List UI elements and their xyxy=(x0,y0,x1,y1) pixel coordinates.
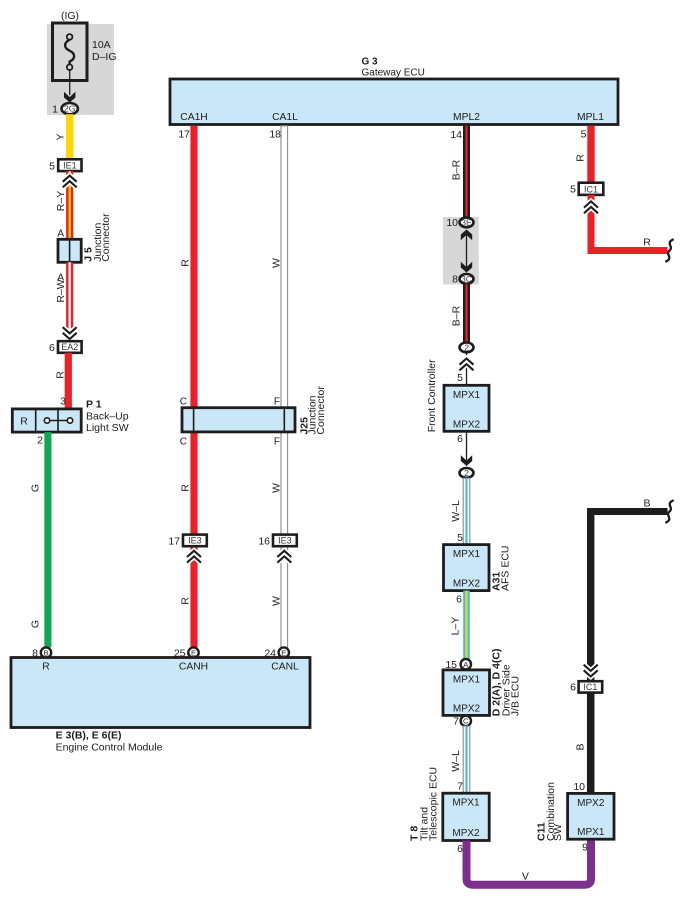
svg-text:G: G xyxy=(30,484,42,492)
wire R (red) from IC1 to right edge xyxy=(588,195,668,254)
svg-text:Connector: Connector xyxy=(100,213,112,262)
wire break curl on black wire xyxy=(665,500,673,523)
svg-text:MPX1: MPX1 xyxy=(452,798,480,809)
svg-text:EA2: EA2 xyxy=(61,342,78,352)
wire W (white) CA1L to J25 xyxy=(271,126,288,408)
svg-text:5: 5 xyxy=(570,183,576,195)
wire W-L (white/blue) to AFS ECU xyxy=(450,478,470,544)
wire R (red) IE3 to ECM CANH xyxy=(180,541,198,647)
svg-text:IE1: IE1 xyxy=(63,161,77,171)
wire W-L (white/blue) to tilt ECU xyxy=(450,726,470,793)
svg-text:2: 2 xyxy=(464,468,469,478)
svg-text:MPX2: MPX2 xyxy=(452,828,480,839)
svg-text:R–W: R–W xyxy=(55,279,67,302)
svg-text:SW: SW xyxy=(552,824,564,841)
svg-text:B–R: B–R xyxy=(451,159,463,180)
wire break curl on red wire xyxy=(665,239,673,262)
svg-text:2: 2 xyxy=(464,342,469,352)
wire B-R (black/red) 3C to connector 2 xyxy=(451,284,470,342)
svg-text:R: R xyxy=(180,259,192,267)
svg-text:Engine Control Module: Engine Control Module xyxy=(56,742,163,754)
junction connector J25, pins C/F xyxy=(180,386,327,448)
gateway ECU G3 box xyxy=(170,57,618,125)
pin numbers under gateway ECU xyxy=(178,129,586,142)
svg-text:Connector: Connector xyxy=(315,386,327,435)
svg-text:IE3: IE3 xyxy=(278,536,292,546)
arrow link 3E to 3C xyxy=(461,230,472,273)
tilt and telescopic ECU T8 box MPX1/MPX2 xyxy=(409,767,489,841)
svg-text:5: 5 xyxy=(457,372,463,384)
AFS ECU A31 box MPX1/MPX2 xyxy=(444,545,512,591)
combination SW C11 box MPX2/MPX1 xyxy=(536,782,614,841)
svg-text:V: V xyxy=(522,871,529,883)
svg-text:6: 6 xyxy=(457,843,463,855)
svg-text:W: W xyxy=(271,596,283,606)
svg-text:14: 14 xyxy=(450,129,462,141)
fuse 10A D-IG (IG) xyxy=(53,10,117,81)
svg-text:R: R xyxy=(42,662,49,673)
gray panel between 3E and 3C xyxy=(443,217,479,285)
svg-text:18: 18 xyxy=(269,129,281,141)
svg-text:6: 6 xyxy=(49,342,55,354)
svg-text:Front Controller: Front Controller xyxy=(426,359,438,432)
svg-text:MPX1: MPX1 xyxy=(453,390,481,401)
svg-text:17: 17 xyxy=(178,129,190,141)
svg-text:10: 10 xyxy=(446,217,458,229)
svg-text:J/B ECU: J/B ECU xyxy=(510,676,522,716)
ECM pin 24 circle E xyxy=(264,647,289,659)
connector oval 2 above front controller xyxy=(460,342,474,352)
wire from fuse to terminal 2G xyxy=(64,69,75,103)
svg-text:5: 5 xyxy=(457,532,463,544)
svg-text:D–IG: D–IG xyxy=(92,51,117,63)
connector IC1 pin 5 (top right) xyxy=(570,183,603,196)
svg-text:R: R xyxy=(180,484,192,492)
svg-text:B–R: B–R xyxy=(451,305,463,326)
lead from front controller pin 6 to oval 2 xyxy=(457,431,472,466)
svg-text:W–L: W–L xyxy=(450,750,462,772)
connector IE1 pin 5 xyxy=(49,159,81,172)
svg-text:10: 10 xyxy=(573,781,585,793)
svg-text:7: 7 xyxy=(457,781,463,793)
wire W (white) J25 to IE3 xyxy=(271,432,288,535)
svg-text:R–Y: R–Y xyxy=(55,191,67,211)
svg-text:E: E xyxy=(281,648,286,657)
svg-text:1: 1 xyxy=(52,103,58,115)
front controller box MPX1/MPX2 xyxy=(426,359,489,432)
svg-text:W–L: W–L xyxy=(450,500,462,522)
svg-text:MPX1: MPX1 xyxy=(453,674,481,685)
svg-text:MPX2: MPX2 xyxy=(577,798,605,809)
svg-text:Light SW: Light SW xyxy=(86,422,129,434)
svg-text:R: R xyxy=(643,236,651,248)
gray service panel behind fuse xyxy=(47,24,114,115)
svg-text:3C: 3C xyxy=(461,274,472,284)
svg-text:6: 6 xyxy=(456,594,462,606)
svg-text:Gateway ECU: Gateway ECU xyxy=(362,68,425,79)
engine control module E3(B) E6(E) box xyxy=(11,658,310,754)
svg-text:G: G xyxy=(30,620,42,628)
wire R (red) J25 to IE3 xyxy=(180,432,198,535)
pin 7 circle C on driver side J/B ECU xyxy=(453,716,471,728)
svg-text:B: B xyxy=(43,648,48,657)
svg-text:Y: Y xyxy=(55,133,67,140)
svg-text:Telescopic ECU: Telescopic ECU xyxy=(428,767,440,841)
wire B (black) from right edge to IC1 xyxy=(587,497,668,681)
wire V (violet) T8 pin 6 to C11 pin 9 xyxy=(457,839,591,885)
wire R (red) MPL1 to IC1 xyxy=(575,126,595,183)
svg-text:MPX2: MPX2 xyxy=(453,703,481,714)
svg-text:6: 6 xyxy=(570,682,576,694)
svg-text:C: C xyxy=(180,397,187,408)
connector IE3 pin 17 xyxy=(168,535,206,563)
wire L-Y (blue/yellow) AFS to driver side J/B xyxy=(450,591,470,660)
svg-text:3E: 3E xyxy=(461,217,472,227)
svg-text:B: B xyxy=(575,743,587,750)
svg-text:MPX2: MPX2 xyxy=(453,419,481,430)
chevron and lead into front controller pin 5 xyxy=(457,353,473,385)
wire R-Y (red/yellow) xyxy=(55,171,73,239)
svg-text:AFS ECU: AFS ECU xyxy=(500,545,512,591)
svg-text:L–Y: L–Y xyxy=(450,617,462,636)
wire R-W (red/white) xyxy=(55,262,73,341)
svg-text:5: 5 xyxy=(49,160,55,172)
svg-text:CA1L: CA1L xyxy=(272,112,298,123)
svg-text:F: F xyxy=(274,397,280,408)
chevron above IC1 (bottom) xyxy=(584,665,598,677)
svg-text:R: R xyxy=(575,154,587,162)
svg-text:E 3(B), E 6(E): E 3(B), E 6(E) xyxy=(56,730,122,742)
svg-text:R: R xyxy=(180,597,192,605)
svg-text:8: 8 xyxy=(452,274,458,286)
svg-text:6: 6 xyxy=(457,433,463,445)
svg-text:CANL: CANL xyxy=(271,662,299,673)
svg-text:MPX1: MPX1 xyxy=(577,827,605,838)
svg-text:R: R xyxy=(55,371,67,379)
svg-text:16: 16 xyxy=(258,535,270,547)
svg-text:5: 5 xyxy=(581,129,587,141)
terminal oval 3C pin 8 xyxy=(452,274,473,286)
wire G (green) from P1 pin 2 xyxy=(30,432,52,647)
svg-text:E: E xyxy=(191,648,196,657)
svg-text:MPX2: MPX2 xyxy=(453,579,481,590)
svg-text:IC1: IC1 xyxy=(583,682,597,692)
svg-text:P 1: P 1 xyxy=(86,399,102,411)
connector oval 2 below front controller xyxy=(460,468,474,478)
svg-text:B: B xyxy=(643,497,650,509)
driver side J/B ECU D2(A) D4(C) box MPX1/MPX2 xyxy=(443,649,522,717)
svg-text:IE3: IE3 xyxy=(188,536,202,546)
junction connector J5, pins A/A xyxy=(57,213,112,284)
svg-text:R: R xyxy=(20,416,28,428)
connector EA2 pin 6 xyxy=(49,341,82,354)
svg-text:W: W xyxy=(271,483,283,493)
svg-text:(IG): (IG) xyxy=(61,10,79,22)
pin 15 circle A on driver side J/B ECU xyxy=(445,659,471,671)
svg-text:W: W xyxy=(271,258,283,268)
wire B (black) IC1 to combination SW xyxy=(573,693,594,794)
back-up light switch P1 xyxy=(12,399,128,447)
svg-text:MPL1: MPL1 xyxy=(577,112,604,123)
svg-text:17: 17 xyxy=(168,535,180,547)
svg-text:CA1H: CA1H xyxy=(180,112,207,123)
svg-text:C: C xyxy=(180,437,187,448)
wire R (red) into P1 pin 3 xyxy=(55,353,72,409)
ECM pin 8 circle B xyxy=(32,647,51,659)
svg-text:C: C xyxy=(463,717,469,726)
svg-text:3: 3 xyxy=(60,396,66,408)
chevron below IC1 (top right) xyxy=(584,201,598,213)
svg-text:A: A xyxy=(57,228,64,239)
svg-text:MPX1: MPX1 xyxy=(453,549,481,560)
svg-text:2: 2 xyxy=(37,435,43,447)
ECM pin 25 circle E xyxy=(174,647,199,659)
svg-text:2G: 2G xyxy=(64,104,76,114)
svg-text:CANH: CANH xyxy=(179,662,208,673)
wire Y (yellow) xyxy=(55,114,74,159)
terminal oval 3E pin 10 xyxy=(446,217,473,229)
svg-text:G 3: G 3 xyxy=(362,57,379,68)
svg-text:10A: 10A xyxy=(92,39,111,51)
connector chevron above EA2 xyxy=(63,327,77,339)
connector IC1 pin 6 (bottom right) xyxy=(570,681,602,694)
wire R (red) CA1H to J25 xyxy=(180,126,198,408)
connector IE3 pin 16 xyxy=(258,535,296,563)
svg-text:F: F xyxy=(274,437,280,448)
svg-text:Back–Up: Back–Up xyxy=(86,411,129,423)
wire W (white) IE3 to ECM CANL xyxy=(271,541,288,647)
svg-text:MPL2: MPL2 xyxy=(453,112,480,123)
connector chevron below IE1 xyxy=(63,176,77,188)
svg-text:7: 7 xyxy=(453,716,459,728)
wire B-R (black/red) MPL2 to 3E xyxy=(451,126,470,218)
svg-text:IC1: IC1 xyxy=(584,184,598,194)
terminal oval 2G, pin 1 xyxy=(52,103,78,115)
